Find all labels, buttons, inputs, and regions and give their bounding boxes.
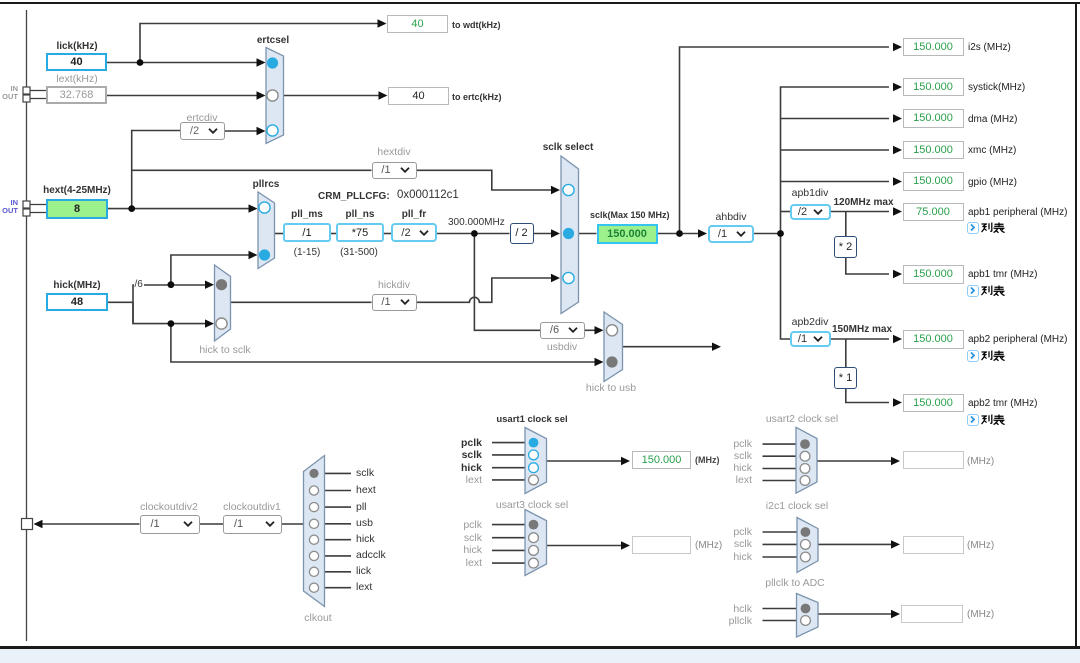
input box lext xyxy=(46,86,107,104)
labels usart1 inputs xyxy=(450,438,482,449)
frame bottom border xyxy=(0,646,1080,649)
dropdown hickdiv xyxy=(372,294,417,312)
wire ertcsel to ertc box xyxy=(284,95,380,97)
arrow into apb1 peripheral box xyxy=(893,207,902,215)
box mul2 xyxy=(834,236,857,258)
wire trunk up to systick xyxy=(781,87,890,234)
output box apb1 tmr xyxy=(903,265,964,284)
wire trunk down to apb2div xyxy=(781,234,791,340)
pin lext OUT xyxy=(23,95,30,102)
label usart2 clock sel xyxy=(757,414,847,425)
wire trunk to dma xyxy=(781,118,890,120)
wire hext to hextdiv xyxy=(132,169,372,171)
label systick xyxy=(968,82,1025,93)
label pll_ns range xyxy=(331,247,387,258)
arrow into usart1 box xyxy=(621,457,630,465)
wire hext to ertcdiv xyxy=(132,131,180,209)
box sclk result xyxy=(597,224,658,244)
label 150MHz max xyxy=(832,324,892,335)
output box gpio xyxy=(903,172,964,191)
box pll_ms xyxy=(283,223,331,242)
chip boundary line xyxy=(26,10,28,641)
wire hick to usb long xyxy=(171,324,595,362)
button list apb2 tmr xyxy=(967,414,979,426)
label clockoutdiv1 xyxy=(217,502,287,513)
label div6 fixed xyxy=(134,279,144,290)
wire lick to wdt xyxy=(140,24,378,63)
dropdown apb1div xyxy=(790,204,831,221)
wire usbmux out xyxy=(623,346,713,348)
label pllrcs xyxy=(236,179,296,190)
label to ertc xyxy=(452,92,502,103)
wire clkout chain xyxy=(42,523,304,525)
wire usart3 out xyxy=(547,545,622,547)
wire ahbdiv out xyxy=(754,233,781,235)
arrow into hick2sclk r2 xyxy=(205,319,214,327)
wire sclkbox to ahbdiv xyxy=(658,233,699,235)
mux ertcsel xyxy=(266,48,284,144)
output box to wdt xyxy=(387,15,448,33)
arrow into usbmux r1 xyxy=(595,326,604,334)
label ahbdiv xyxy=(701,212,761,223)
wires usart1 inputs xyxy=(492,443,525,480)
wire hextdiv to sclkselect xyxy=(417,170,552,190)
label hick xyxy=(46,280,108,291)
label i2s xyxy=(968,42,1011,53)
mux hick to sclk xyxy=(215,265,231,341)
arrow into pllrcs r1 xyxy=(249,204,258,212)
label adc MHz xyxy=(967,609,994,620)
junction dots xyxy=(128,59,784,327)
wire hick down branch xyxy=(133,302,206,323)
label i2c1 MHz xyxy=(967,540,994,551)
arrow into apb2 tmr box xyxy=(893,398,902,406)
wire apb1div to mul2 xyxy=(845,212,847,237)
footer band xyxy=(0,649,1080,663)
wire apb2div to apb2 peripheral xyxy=(831,338,889,340)
label hickdiv xyxy=(364,280,424,291)
arrow into sclkselect r2 xyxy=(551,229,560,237)
label usart1 clock sel xyxy=(487,414,577,425)
label hextdiv xyxy=(364,147,424,158)
label IN lext xyxy=(2,85,18,93)
wire mul2 to apb1 tmr xyxy=(846,258,889,275)
arrow into usart2 box xyxy=(891,457,900,465)
label pll_ns xyxy=(336,209,384,220)
mux usart2 clock sel xyxy=(796,427,817,493)
arrow into usart3 box xyxy=(621,541,630,549)
wire usart1 out xyxy=(547,460,622,462)
label dma xyxy=(968,114,1017,125)
box pll_ns xyxy=(336,223,384,242)
wire hext to pllrcs xyxy=(108,208,249,210)
output box usart1 xyxy=(632,451,691,469)
arrow into ertcsel r2 xyxy=(257,91,266,99)
frame right border xyxy=(1075,2,1078,647)
arrow into i2s box xyxy=(893,43,902,51)
wire trunk to gpio xyxy=(781,181,890,183)
label pll_fr xyxy=(391,209,437,220)
label OUT hext xyxy=(2,207,18,215)
wire usart2 out xyxy=(817,460,891,462)
arrow into i2c1 box xyxy=(891,540,900,548)
arrow into xmc box xyxy=(893,146,902,154)
arrow into ertcsel r1 xyxy=(257,58,266,66)
labels adc inputs xyxy=(718,604,752,615)
wire hick div6 up xyxy=(133,285,206,324)
frame top border xyxy=(0,2,1080,4)
output box to ertc xyxy=(388,87,449,105)
labels usart3 inputs xyxy=(450,520,482,531)
mux hick to usb xyxy=(604,312,623,382)
arrow into sclkselect r1 xyxy=(551,186,560,194)
arrow usb out end xyxy=(712,343,721,351)
node lick junction xyxy=(137,59,144,66)
node sclk junction xyxy=(676,230,683,237)
wire apb1div to apb1 peripheral xyxy=(831,211,889,213)
dropdown apb2div xyxy=(790,331,831,348)
output box xmc xyxy=(903,141,964,160)
wire div2 to sclkselect xyxy=(534,233,553,235)
arrow into gpio box xyxy=(893,177,902,185)
arrow into systick box xyxy=(893,83,902,91)
pin hext IN xyxy=(23,201,30,208)
wire i2c1 out xyxy=(818,543,891,545)
label pll_ms range xyxy=(283,247,331,258)
wire sclk to i2s xyxy=(680,47,890,234)
pin hext OUT xyxy=(23,209,30,216)
output box apb2 tmr xyxy=(903,394,964,413)
output box usart3 xyxy=(632,536,691,554)
output box apb2 peripheral xyxy=(903,330,964,349)
label OUT lext xyxy=(2,93,18,101)
arrow into dma box xyxy=(893,114,902,122)
wire adcmux out xyxy=(818,613,891,615)
wires adcmux inputs xyxy=(763,609,797,621)
arrow into apb1 tmr box xyxy=(893,270,902,278)
wires i2c1 inputs xyxy=(763,532,798,557)
label i2c1 clock sel xyxy=(752,501,842,512)
output box i2s xyxy=(903,38,964,57)
labels usart2 inputs xyxy=(722,439,752,450)
wire pll to usbdiv xyxy=(474,234,540,331)
label apb2div xyxy=(780,317,840,328)
output box usart2 xyxy=(903,451,964,469)
arrowheads xyxy=(34,19,903,618)
label apb2 peripheral xyxy=(968,334,1068,345)
wire apb2div to mul1 xyxy=(845,339,847,367)
arrow into ahbdiv xyxy=(698,229,707,237)
wire trunk to apb1div xyxy=(781,211,791,213)
arrow into hick2sclk r1 xyxy=(205,281,214,289)
label ertcdiv xyxy=(172,113,232,124)
box mul1 xyxy=(834,367,857,389)
arrow into usbmux r2 xyxy=(595,358,604,366)
dropdown clockoutdiv1 xyxy=(223,515,282,534)
dropdown usbdiv xyxy=(540,322,585,339)
button list apb2 peripheral xyxy=(967,350,979,362)
dropdown ertcdiv xyxy=(180,122,225,140)
button list apb1 tmr xyxy=(967,285,979,297)
input box hext xyxy=(46,199,108,219)
wire lick to ertcsel xyxy=(107,62,257,64)
mux i2c1 clock sel xyxy=(797,518,818,573)
label to wdt xyxy=(452,20,501,31)
label usart1 MHz xyxy=(695,455,720,466)
wire sclkselect to sclkbox xyxy=(579,233,597,235)
arrow into sclkselect r3 xyxy=(551,274,560,282)
wire hickdiv to sclkselect with hop xyxy=(417,278,552,302)
label clkout xyxy=(288,613,348,624)
label 300MHz xyxy=(448,217,505,228)
wire lext to ertcsel xyxy=(106,95,257,97)
label usbdiv xyxy=(532,342,592,353)
label sclk max xyxy=(590,210,670,221)
wire pllns to pllfr xyxy=(384,233,391,235)
output box i2c1 xyxy=(903,536,964,554)
label ertcsel xyxy=(243,35,303,46)
output box adc xyxy=(901,605,963,623)
wire mul1 to apb2 tmr xyxy=(846,389,889,403)
wires clkout taps xyxy=(325,473,352,587)
label lext xyxy=(46,74,108,85)
output box apb1 peripheral xyxy=(903,203,964,222)
label pllclk to ADC xyxy=(750,578,840,589)
mux pllclk to ADC xyxy=(797,594,819,638)
input box hick xyxy=(46,293,108,311)
label lick xyxy=(46,41,108,52)
wire div6 to pllrcs xyxy=(171,255,249,285)
wires usart3 inputs xyxy=(492,525,525,564)
label CRM_PLLCFG xyxy=(318,191,390,202)
wires lext pin stubs xyxy=(30,91,46,99)
input box lick xyxy=(46,53,107,71)
mux usart3 clock sel xyxy=(525,510,547,576)
label sclk select xyxy=(538,142,598,153)
label CRM value xyxy=(397,190,459,201)
dropdown hextdiv xyxy=(372,162,417,179)
pin clkout xyxy=(22,519,33,530)
arrow into wdt box xyxy=(378,19,387,27)
wire pllfr to div2 xyxy=(437,233,510,235)
box div2 xyxy=(510,223,534,244)
label xmc xyxy=(968,145,1016,156)
label hick to usb xyxy=(581,383,641,394)
node ahb junction xyxy=(777,230,784,237)
wire pllrcs to pllms xyxy=(275,233,284,235)
button list apb1 peripheral xyxy=(967,222,979,234)
pin lext IN xyxy=(23,87,30,94)
mux usart1 clock sel xyxy=(525,428,547,494)
dropdown pll_fr xyxy=(391,223,437,242)
wire pllms to pllns xyxy=(331,233,336,235)
output box dma xyxy=(903,109,964,128)
arrow into apb2 peripheral box xyxy=(893,335,902,343)
wires hext pin stubs xyxy=(30,205,46,213)
label apb2 tmr xyxy=(968,398,1037,409)
arrow into adc box xyxy=(891,610,900,618)
wire ertcdiv to ertcsel xyxy=(225,130,257,132)
wire usbdiv to usbmux xyxy=(585,329,595,331)
wire trunk to xmc xyxy=(781,149,890,151)
label clockoutdiv2 xyxy=(134,502,204,513)
label usart3 clock sel xyxy=(487,500,577,511)
mux pllrcs xyxy=(258,192,275,269)
label apb1 peripheral xyxy=(968,207,1068,218)
wire hick2sclk mux to hickdiv xyxy=(231,301,372,303)
wire hick out xyxy=(108,301,133,303)
label apb1div xyxy=(780,188,840,199)
label IN hext xyxy=(2,199,18,207)
label hick to sclk xyxy=(195,345,255,356)
node hick direct junction xyxy=(168,320,175,327)
node pll 300MHz junction xyxy=(471,230,478,237)
mux clkout xyxy=(304,456,325,607)
arrow into pllrcs r2 xyxy=(249,251,258,259)
arrow into ertcsel r3 xyxy=(257,127,266,135)
output box systick xyxy=(903,78,964,97)
node hext junction xyxy=(128,205,135,212)
label usart3 MHz xyxy=(695,540,722,551)
wires usart2 inputs xyxy=(763,444,797,480)
node hick div6 junction xyxy=(168,281,175,288)
label usart2 MHz xyxy=(967,456,994,467)
labels clkout outputs xyxy=(356,468,374,479)
labels i2c1 inputs xyxy=(722,527,752,538)
mux sclk select xyxy=(561,156,579,314)
label gpio xyxy=(968,177,1017,188)
label hext xyxy=(40,185,114,196)
dropdown ahbdiv xyxy=(708,225,754,243)
label apb1 tmr xyxy=(968,269,1037,280)
dropdown clockoutdiv2 xyxy=(140,515,200,534)
arrow into ertc box xyxy=(379,91,388,99)
label pll_ms xyxy=(283,209,331,220)
arrow clkout to pin xyxy=(34,520,43,528)
label 120MHz max xyxy=(834,197,894,208)
